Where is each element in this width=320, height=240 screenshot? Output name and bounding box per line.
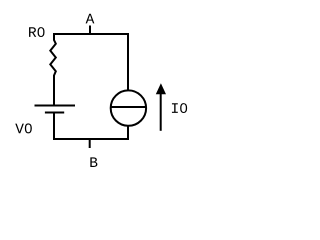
node B label	[90, 157, 97, 167]
current direction arrow head	[156, 83, 166, 94]
node B	[89, 139, 91, 148]
wire: right vertical bottom segment	[127, 126, 129, 140]
current direction arrow shaft	[160, 94, 162, 131]
wire: right vertical top segment	[127, 33, 129, 90]
wire: left vertical bottom segment	[53, 113, 55, 141]
resistor R0 value label	[29, 27, 44, 37]
wire: left vertical top segment	[53, 33, 55, 41]
node A	[89, 26, 91, 35]
battery V0 short plate	[45, 112, 64, 114]
current source I0 bar	[111, 106, 146, 108]
current arrow label I0	[172, 103, 187, 113]
node A label	[86, 14, 95, 24]
battery V0 long plate	[35, 105, 76, 107]
current source I0 circle	[111, 90, 146, 125]
resistor R0	[50, 40, 56, 76]
wire: top horizontal A-rail	[53, 33, 129, 35]
wire: left vertical middle segment	[53, 75, 55, 106]
battery V0 label	[15, 123, 32, 133]
wire: bottom horizontal B-rail	[53, 138, 129, 140]
